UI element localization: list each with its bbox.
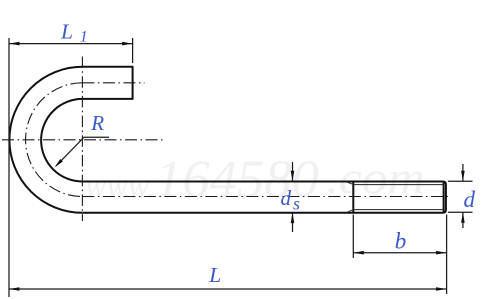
arrow R [55,159,63,167]
extension line b left [352,215,354,259]
centerline top arm [82,82,144,84]
arrow L1 left [9,42,20,46]
ds arrow bottom [291,213,295,232]
centerline horizontal through hook [2,139,166,141]
svg-text:d: d [281,186,292,210]
svg-text:1: 1 [80,29,88,46]
extension line left [8,38,10,297]
arrow d top [461,171,465,182]
ds arrow top [291,162,295,181]
arrow b right [436,251,447,255]
thread start line [352,182,354,213]
centerline shank [82,196,451,198]
hook outer arc [9,67,82,213]
label ds [281,186,301,214]
arrow L left [9,287,20,291]
svg-text:.com: .com [326,152,425,203]
extension line L1 right [132,38,134,63]
thread runout diagonals [347,182,354,213]
thread chamfer line [443,182,445,213]
label L1 [60,19,88,45]
arrow d bottom [461,212,465,223]
thread minor diameter lines [353,185,443,210]
dimension line d top [462,164,464,181]
arrow L1 right [122,42,133,46]
dimension line L1 [9,43,133,45]
bolt shank outline [82,182,443,213]
svg-text:www.: www. [85,165,155,207]
extension lines d [448,181,473,212]
centerline pitch arc [26,83,83,197]
svg-text:L: L [208,263,221,287]
dimension line L [9,288,447,290]
bolt end cap [444,182,446,213]
extension line right shared b and L [446,215,448,295]
svg-text:R: R [90,111,104,135]
svg-text:s: s [293,194,300,214]
radius leader R [56,137,109,166]
svg-text:L: L [60,19,73,43]
arrow b left [353,251,364,255]
bolt top arm outline [82,67,132,99]
centerline vertical through hook [81,57,83,222]
hook inner arc [41,99,82,182]
svg-text:b: b [395,229,407,254]
dimension line d bottom [462,213,464,229]
arrow L right [436,287,447,291]
watermark www.164580.com [85,151,425,209]
svg-text:d: d [464,187,476,212]
dimension line b [353,252,446,254]
